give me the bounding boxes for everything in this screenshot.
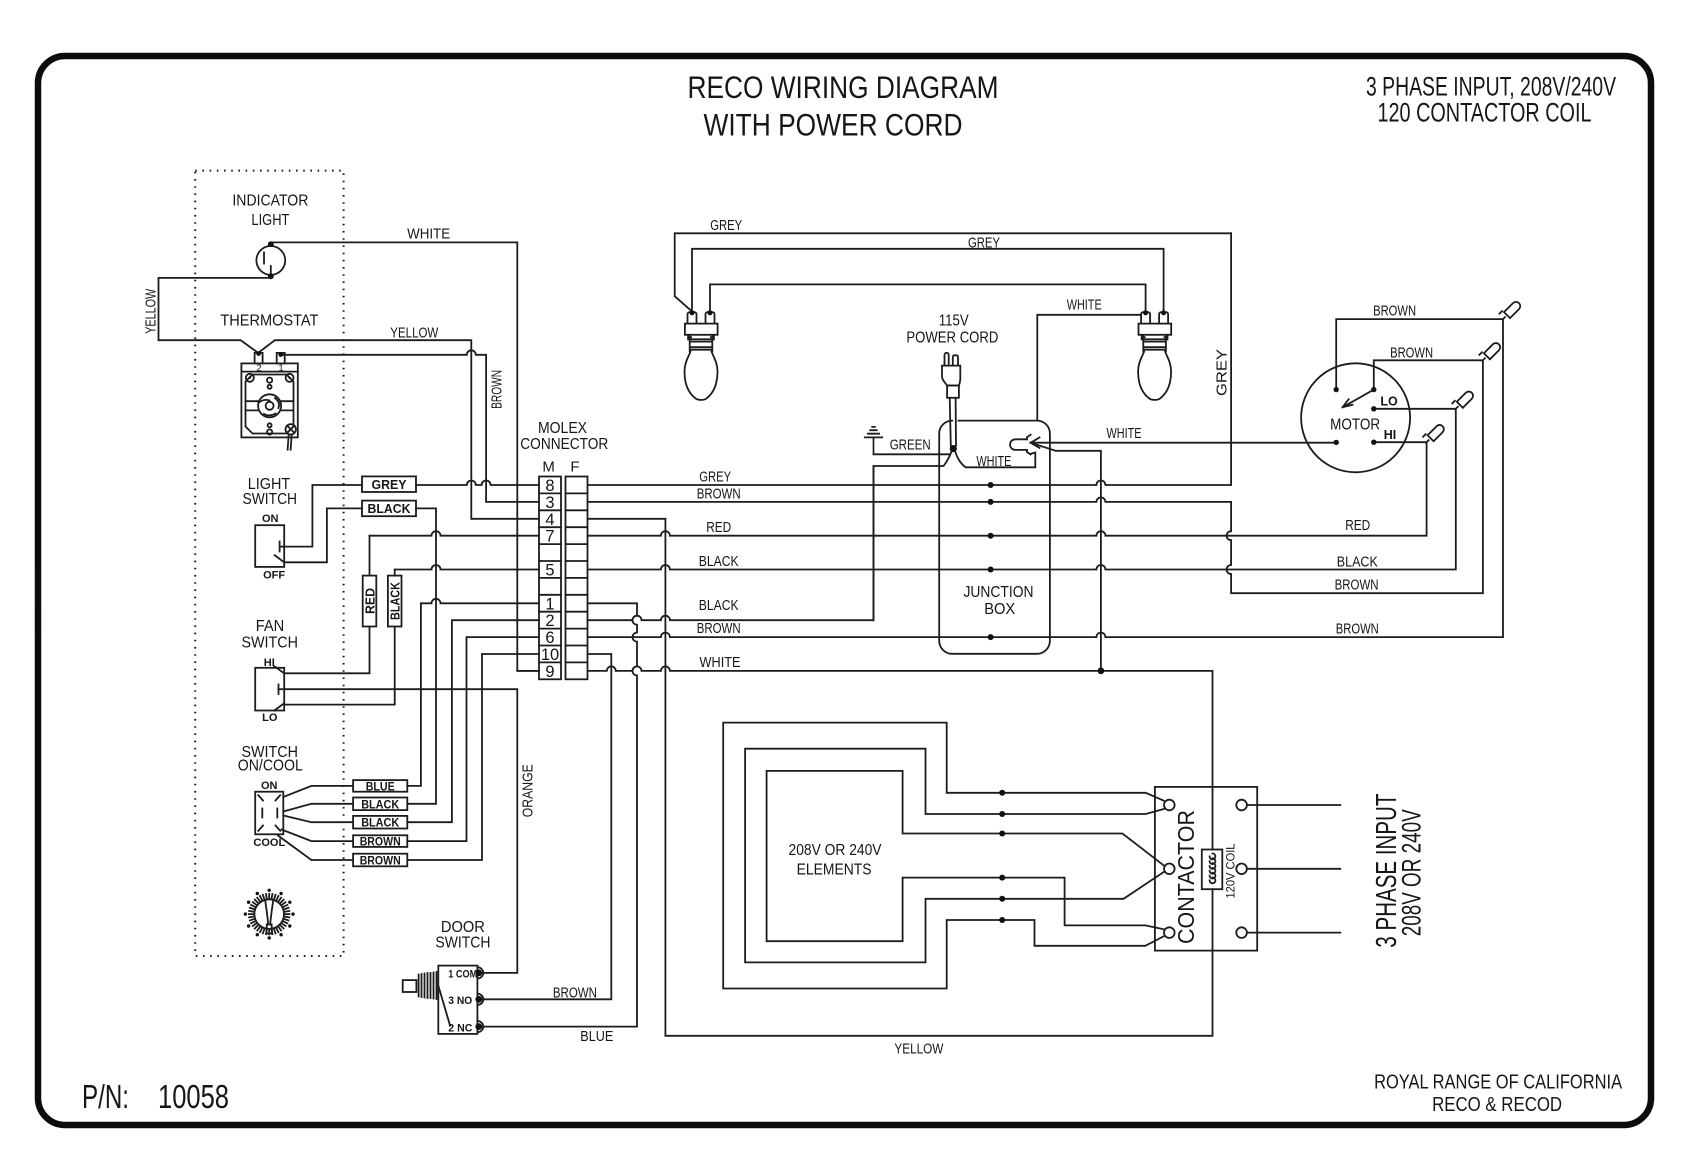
heating elements: middle loop bbox=[745, 749, 1164, 963]
label box GREY bbox=[362, 476, 416, 492]
svg-text:CONNECTOR: CONNECTOR bbox=[520, 436, 608, 453]
door switch S4 bbox=[403, 966, 484, 1034]
svg-text:THERMOSTAT: THERMOSTAT bbox=[220, 312, 318, 329]
wire GREY riser to lamp1 left pin bbox=[675, 233, 1231, 310]
svg-text:RECO & RECOD: RECO & RECOD bbox=[1432, 1093, 1562, 1116]
svg-text:GREEN: GREEN bbox=[890, 438, 931, 454]
wire GREY lamp1 left pin to lamp2 right pin bbox=[692, 249, 1164, 310]
svg-text:BROWN: BROWN bbox=[360, 835, 401, 849]
oven lamp 1 (left) bbox=[685, 310, 718, 400]
svg-text:M: M bbox=[542, 459, 555, 476]
wire WHITE lamp2 left pin to junction box bbox=[1037, 315, 1141, 421]
element lead splice dots bbox=[999, 790, 1005, 923]
svg-text:MOTOR: MOTOR bbox=[1330, 417, 1380, 434]
svg-text:BLACK: BLACK bbox=[361, 797, 399, 811]
svg-text:GREY: GREY bbox=[699, 470, 731, 486]
svg-text:4: 4 bbox=[545, 511, 554, 529]
svg-text:HI: HI bbox=[1384, 428, 1397, 442]
wire WHITE power cord neutral to wire nut bbox=[955, 452, 1035, 468]
wire WHITE arrow into wire nut and run to motor common bbox=[1031, 438, 1337, 448]
svg-text:BROWN: BROWN bbox=[360, 854, 401, 868]
wire BLUE molex row1 to door NC and to ON/COOL BLUE (hop at 436; vertical x=637 hops at 620.2,637.1,670.9) bbox=[407, 599, 637, 1027]
wire BLACK power cord hot down to molex row2 junction bbox=[874, 452, 952, 621]
terminal lug (HI) bbox=[1423, 425, 1444, 443]
svg-text:BLUE: BLUE bbox=[366, 779, 395, 793]
svg-text:ON/COOL: ON/COOL bbox=[238, 757, 303, 774]
svg-text:GREY: GREY bbox=[372, 478, 408, 492]
wire YELLOW from indicator light through thermostat pin2 to molex row 4 bbox=[159, 278, 540, 519]
svg-text:120 CONTACTOR COIL: 120 CONTACTOR COIL bbox=[1378, 98, 1592, 128]
fan switch S2 bbox=[255, 666, 284, 710]
svg-text:RECO WIRING DIAGRAM: RECO WIRING DIAGRAM bbox=[688, 69, 999, 105]
svg-text:YELLOW: YELLOW bbox=[894, 1041, 944, 1058]
svg-text:WHITE: WHITE bbox=[976, 454, 1011, 470]
wire WHITE nut to molex row9 riser bbox=[1031, 443, 1101, 671]
power cord plug P1 bbox=[942, 353, 960, 446]
svg-text:BROWN: BROWN bbox=[490, 370, 506, 409]
svg-text:JUNCTION: JUNCTION bbox=[964, 584, 1034, 601]
switch ON/COOL S3 bbox=[255, 792, 283, 835]
svg-text:ORANGE: ORANGE bbox=[521, 764, 537, 817]
svg-text:DOOR: DOOR bbox=[441, 919, 485, 936]
indicator light DS1 bbox=[256, 241, 285, 279]
svg-text:LO: LO bbox=[262, 712, 278, 724]
wire BROWN molex row6 to motor upper-left via x=1503 (hops at 665,1101) and to ON/COOL BROWN1 bbox=[407, 319, 1503, 841]
svg-text:BLACK: BLACK bbox=[699, 554, 739, 570]
svg-text:10: 10 bbox=[541, 646, 559, 664]
svg-text:LO: LO bbox=[1380, 394, 1398, 408]
svg-text:1 COM: 1 COM bbox=[448, 968, 477, 980]
svg-text:2: 2 bbox=[256, 363, 261, 374]
label box BROWN (on/cool) bbox=[353, 835, 407, 849]
motor M1 bbox=[1301, 363, 1410, 472]
molex pin numbers bbox=[541, 477, 559, 681]
svg-text:2: 2 bbox=[545, 612, 554, 630]
svg-text:OFF: OFF bbox=[263, 570, 285, 582]
svg-text:YELLOW: YELLOW bbox=[390, 326, 438, 342]
heating elements: outer loop bbox=[723, 723, 1164, 989]
svg-text:POWER CORD: POWER CORD bbox=[906, 329, 998, 346]
svg-text:WHITE: WHITE bbox=[1067, 298, 1102, 314]
svg-text:2 NC: 2 NC bbox=[448, 1023, 472, 1035]
buzzer/knob ornament bbox=[244, 889, 295, 940]
svg-text:BROWN: BROWN bbox=[1335, 578, 1379, 594]
svg-text:ELEMENTS: ELEMENTS bbox=[797, 861, 872, 878]
svg-text:INDICATOR: INDICATOR bbox=[232, 193, 308, 210]
wire WHITE from indicator light to molex row 9 bbox=[271, 242, 539, 671]
wire BROWN molex row3 F-side to motor upper-right via x=1231,1483 (hop at 1101; vertical hops at 535.7,569.5) bbox=[588, 360, 1483, 593]
wire BLACK molex row5 to motor LO via x=1455.8 (hops 436,665,1101) bbox=[395, 409, 1456, 570]
svg-text:WHITE: WHITE bbox=[407, 227, 450, 243]
wire RED box to fan switch HI bbox=[284, 536, 369, 674]
svg-text:9: 9 bbox=[545, 663, 554, 681]
wire BROWN molex row10 to door NO and ON/COOL BROWN2 bbox=[407, 654, 611, 999]
label box BROWN 2 (on/cool) bbox=[353, 854, 407, 868]
svg-text:SWITCH: SWITCH bbox=[241, 635, 298, 652]
svg-text:COOL: COOL bbox=[253, 837, 285, 849]
svg-text:6: 6 bbox=[545, 629, 554, 647]
svg-text:MOLEX: MOLEX bbox=[538, 420, 587, 437]
svg-text:BLUE: BLUE bbox=[580, 1028, 613, 1045]
wire GREEN ground to power cord bbox=[874, 453, 950, 455]
svg-text:208V OR 240V: 208V OR 240V bbox=[1397, 809, 1427, 936]
label box BLACK (on/cool) bbox=[353, 797, 407, 811]
svg-text:BROWN: BROWN bbox=[697, 621, 741, 637]
svg-text:8: 8 bbox=[545, 477, 554, 495]
svg-text:208V OR 240V: 208V OR 240V bbox=[789, 842, 882, 859]
contactor K1 bbox=[1155, 787, 1257, 951]
terminal lug (LO) bbox=[1452, 392, 1473, 410]
oven lamp 2 (right) bbox=[1138, 310, 1171, 400]
wire GREY molex row8 F-side to lamps riser (hop at 1101) bbox=[588, 233, 1232, 485]
svg-text:BLACK: BLACK bbox=[699, 598, 739, 614]
junction box splice dots bbox=[988, 482, 994, 640]
label box BLACK bbox=[362, 501, 416, 517]
svg-text:ROYAL RANGE OF CALIFORNIA: ROYAL RANGE OF CALIFORNIA bbox=[1374, 1071, 1622, 1094]
light switch S1 bbox=[255, 525, 284, 567]
label box BLUE bbox=[353, 779, 407, 793]
heating elements: inner loop bbox=[767, 771, 1165, 941]
svg-text:BLACK: BLACK bbox=[389, 582, 403, 620]
thermostat T1 bbox=[241, 351, 297, 449]
svg-text:BROWN: BROWN bbox=[553, 984, 597, 1001]
svg-text:RED: RED bbox=[706, 520, 731, 536]
ground symbol bbox=[865, 427, 882, 454]
contactor 120V coil bbox=[1202, 850, 1223, 890]
svg-text:YELLOW: YELLOW bbox=[144, 289, 160, 334]
3 phase input wires bbox=[1247, 805, 1340, 933]
wire YELLOW molex row4 to contactor coil (bottom run) bbox=[588, 519, 1213, 1036]
svg-text:SWITCH: SWITCH bbox=[243, 491, 298, 508]
junction dot white/row9 bbox=[1098, 668, 1105, 675]
wire WHITE lamp1 right pin to lamp2 left pin bbox=[710, 284, 1146, 310]
wire WHITE fan switch common to door switch COM (ORANGE riser x=517.3) bbox=[284, 689, 517, 973]
svg-text:GREY: GREY bbox=[1215, 349, 1231, 396]
svg-text:F: F bbox=[570, 459, 579, 476]
svg-text:BROWN: BROWN bbox=[1373, 304, 1416, 320]
svg-text:115V: 115V bbox=[939, 313, 969, 330]
label box RED (vertical) with wire to fan HI bbox=[363, 576, 378, 627]
molex connector J1 bbox=[520, 420, 608, 681]
svg-text:GREY: GREY bbox=[710, 218, 742, 234]
dotted control-panel boundary box bbox=[195, 171, 343, 956]
svg-text:1: 1 bbox=[278, 363, 283, 374]
svg-text:BROWN: BROWN bbox=[1390, 346, 1433, 362]
wire RED molex row7 F-side to motor HI via x=1426.6 (hops at 436? no: hops 637?no; hops at 665,1101) bbox=[370, 442, 1427, 536]
svg-text:1: 1 bbox=[545, 595, 554, 613]
svg-text:P/N:: P/N: bbox=[82, 1078, 129, 1115]
svg-text:GREY: GREY bbox=[968, 235, 1000, 251]
svg-text:BROWN: BROWN bbox=[1336, 622, 1379, 638]
svg-text:ON: ON bbox=[261, 780, 278, 792]
svg-text:RED: RED bbox=[1345, 518, 1370, 534]
svg-text:WHITE: WHITE bbox=[700, 655, 741, 671]
svg-text:BLACK: BLACK bbox=[368, 502, 411, 516]
wires from ON/COOL switch to five label boxes bbox=[278, 786, 353, 860]
wire BLACK box to fan switch LO bbox=[284, 570, 395, 705]
svg-text:FAN: FAN bbox=[256, 618, 285, 635]
svg-text:10058: 10058 bbox=[158, 1078, 229, 1115]
wire WHITE molex row9 to junction box and contactor coil (hops at 611,637,665) bbox=[517, 666, 1212, 849]
svg-text:120V COIL: 120V COIL bbox=[1226, 843, 1238, 899]
svg-text:BROWN: BROWN bbox=[697, 486, 741, 502]
svg-text:3: 3 bbox=[545, 494, 554, 512]
svg-text:ON: ON bbox=[262, 513, 279, 525]
wire BROWN thermostat pin1 to molex row 3 (hop at x=471) bbox=[281, 350, 539, 502]
svg-text:WITH POWER CORD: WITH POWER CORD bbox=[704, 107, 963, 143]
svg-text:RED: RED bbox=[363, 588, 377, 614]
wire BLACK molex row2 to power cord hot and ON/COOL BLACK2 (hops at 637,665) bbox=[407, 466, 873, 822]
svg-text:7: 7 bbox=[545, 528, 554, 546]
svg-text:LIGHT: LIGHT bbox=[251, 212, 289, 229]
label box BLACK 2 (on/cool) bbox=[353, 816, 407, 830]
label box BLACK (vertical) with wire to fan LO bbox=[388, 576, 403, 627]
svg-text:5: 5 bbox=[545, 562, 554, 580]
wire nut connector bbox=[1010, 435, 1031, 455]
svg-text:SWITCH: SWITCH bbox=[435, 934, 490, 951]
svg-text:3 NO: 3 NO bbox=[448, 995, 472, 1007]
wire BLACK light switch OFF to ON/COOL BLACK1 via x=436 bbox=[284, 508, 436, 803]
terminal lug (brown top) bbox=[1500, 302, 1521, 320]
svg-text:BOX: BOX bbox=[984, 601, 1015, 618]
svg-text:BLACK: BLACK bbox=[361, 816, 399, 830]
wire GREY light switch ON to molex row 8 (hops at 471,486) bbox=[284, 481, 539, 547]
junction box bbox=[939, 421, 1050, 654]
svg-text:WHITE: WHITE bbox=[1107, 426, 1142, 442]
svg-text:BLACK: BLACK bbox=[1337, 554, 1378, 570]
terminal lug (brown 2) bbox=[1479, 343, 1500, 361]
power cord junction blob bbox=[950, 445, 957, 452]
svg-text:CONTACTOR: CONTACTOR bbox=[1173, 810, 1199, 944]
